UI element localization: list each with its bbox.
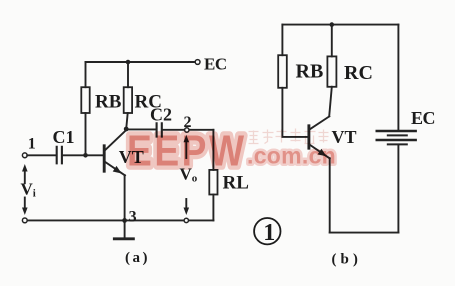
arrow: Vo upper arrow <box>184 135 190 158</box>
transistor VT (b): base bar <box>307 126 310 148</box>
watermark <box>127 125 336 175</box>
wire: bottom ground rail (a) <box>27 219 213 221</box>
resistor RC (b) <box>327 56 336 86</box>
svg-text:C1: C1 <box>53 127 75 147</box>
wire: RB bottom to base (b) <box>282 88 307 137</box>
battery EC: top long plate <box>377 130 416 133</box>
node: junction RB / base wire (a) <box>83 153 88 158</box>
wire: C2 to node 2 to RL corner <box>162 129 213 131</box>
svg-text:3: 3 <box>129 209 137 226</box>
node 1: input terminal circle <box>22 153 27 158</box>
node: collector junction dot (a) <box>124 127 129 132</box>
capacitor C2 plates <box>157 123 162 136</box>
svg-text:1: 1 <box>263 220 275 246</box>
node 3: bottom terminal circle <box>184 218 188 222</box>
battery EC: bottom short plate <box>388 143 407 145</box>
capacitor C1 plates <box>57 147 62 164</box>
transistor VT (a): base bar <box>103 146 106 171</box>
arrow: Vi lower arrow <box>22 198 28 216</box>
svg-text:RB: RB <box>95 92 122 113</box>
wire: C1 to transistor base <box>62 154 103 156</box>
wire: down to RL (a) <box>212 130 214 170</box>
wire: RC bottom to collector (b) <box>329 87 332 116</box>
wire: emitter down to bottom rail (b) <box>329 158 331 232</box>
resistor RB (a) <box>81 87 89 113</box>
wire: RB top stub (b) <box>281 25 283 56</box>
svg-text:Vi: Vi <box>21 180 36 200</box>
wire: collector junction to C2 <box>126 128 155 130</box>
arrow: Vi upper arrow <box>22 164 28 183</box>
wire: circuit (a) top supply rail <box>86 61 196 63</box>
svg-text:(a): (a) <box>125 250 150 266</box>
node: bottom-left input terminal circle <box>22 218 27 223</box>
svg-text:RL: RL <box>223 173 249 194</box>
figure number circle 1 <box>254 218 280 246</box>
node 2: output terminal circle <box>185 128 189 132</box>
transistor VT (b): collector lead <box>310 116 330 129</box>
node: junction of RC branch on top rail <box>126 60 131 65</box>
resistor RC (a) <box>124 87 132 113</box>
svg-text:EEPW: EEPW <box>127 125 247 175</box>
wire: RC bottom to collector junction (a) <box>126 113 127 128</box>
wire: battery bottom wire (b) <box>397 145 399 232</box>
resistor RL (a) <box>209 170 217 195</box>
wire: input terminal to C1 <box>27 154 56 156</box>
svg-text:RC: RC <box>344 62 373 84</box>
wire: bottom rail (b) <box>330 232 399 234</box>
transistor VT (a): emitter lead <box>105 162 125 176</box>
node: emitter junction on ground rail <box>122 218 127 223</box>
wire: circuit (b) top rail <box>282 24 398 26</box>
svg-text:EC: EC <box>411 108 435 128</box>
node: junction RC on top rail (b) <box>330 22 335 27</box>
ground symbol (a) <box>114 237 133 240</box>
transistor VT (b): emitter arrowhead <box>318 149 329 159</box>
node EC: supply terminal circle (a) <box>195 60 200 65</box>
svg-text:EC: EC <box>204 55 227 74</box>
svg-text:C2: C2 <box>150 105 172 125</box>
resistor RB (b) <box>278 55 287 88</box>
svg-text:RB: RB <box>296 61 324 83</box>
wire: battery top wire (b) <box>397 25 399 131</box>
transistor VT (b): emitter lead <box>310 145 330 159</box>
transistor VT (a): emitter arrowhead <box>113 166 124 176</box>
battery EC: first short plate <box>388 134 407 136</box>
transistor VT (a): collector lead <box>105 130 127 151</box>
svg-text:1: 1 <box>28 136 36 153</box>
wire: RC top stub (a) <box>127 62 129 87</box>
svg-text:.com.cn: .com.cn <box>247 143 336 169</box>
wire: RB top stub (a) <box>85 62 87 87</box>
arrow: Vo lower arrow <box>184 199 190 215</box>
wire: RC top stub (b) <box>331 25 333 57</box>
battery EC: second long plate <box>377 139 416 142</box>
wire: RB bottom to base node (a) <box>85 113 87 155</box>
wire: RL bottom to ground rail <box>212 195 214 221</box>
svg-text:(b): (b) <box>332 252 362 268</box>
wire: emitter down through ground rail (a) <box>124 175 126 238</box>
